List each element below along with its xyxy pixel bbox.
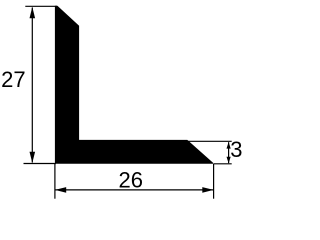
extension line left of 26 dimension (vertical) xyxy=(54,164,56,199)
dimension line 27 (vertical) xyxy=(31,8,33,163)
dimension line 3 (vertical) xyxy=(228,142,230,163)
arrowhead up (27 top) xyxy=(30,7,36,18)
dimension line 26 (horizontal) xyxy=(56,189,214,191)
svg-text:27: 27 xyxy=(1,67,25,92)
arrowhead left (26) xyxy=(55,187,66,193)
arrowhead down (3 bottom) xyxy=(227,157,231,164)
extension line top of 3 dimension xyxy=(188,140,232,142)
extension line bottom of 3 dimension xyxy=(214,163,232,165)
arrowhead up (3 top) xyxy=(227,142,231,149)
extension line top of 27 dimension xyxy=(25,5,57,7)
arrowhead down (27 bottom) xyxy=(30,152,36,163)
extension line right of 26 dimension (vertical) xyxy=(213,164,215,199)
svg-text:26: 26 xyxy=(119,168,143,193)
arrowhead right (26) xyxy=(202,187,213,193)
L-profile cross-section (black filled angle) xyxy=(55,6,214,164)
svg-text:3: 3 xyxy=(230,137,242,162)
extension line bottom-left of 27 dimension xyxy=(24,163,57,165)
